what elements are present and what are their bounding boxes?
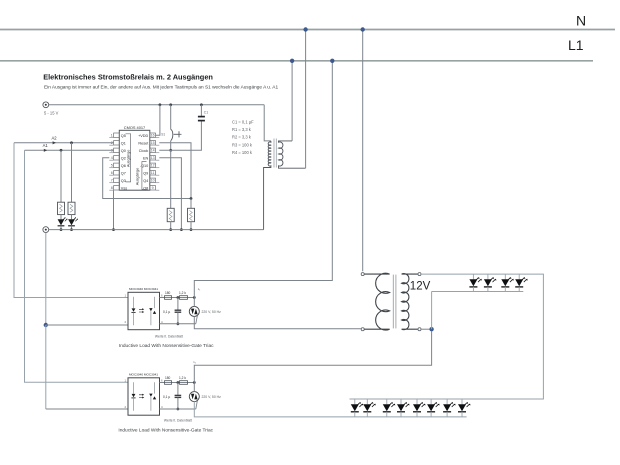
wire R2 to LED D2 bbox=[71, 215, 73, 220]
wire clock junction down to R3 bbox=[170, 150, 172, 208]
svg-text:0,1 µ: 0,1 µ bbox=[163, 310, 170, 314]
wire reset pin15 loop to Q2 pin4 bbox=[103, 143, 191, 199]
junction cap/gate wire bbox=[177, 408, 180, 411]
snubber capacitor bbox=[177, 383, 179, 396]
resistor R2 3.3k bbox=[68, 202, 75, 214]
svg-text:220 V, 50 Hz: 220 V, 50 Hz bbox=[202, 395, 222, 399]
opto LED bbox=[132, 308, 136, 311]
pin 10 (Q4) stub bbox=[150, 178, 156, 182]
svg-text:Inductive Load With Nonsensiti: Inductive Load With Nonsensitive-Gate Tr… bbox=[118, 427, 213, 433]
svg-text:Q9: Q9 bbox=[143, 171, 148, 175]
svg-text:5 - 15 V: 5 - 15 V bbox=[44, 111, 59, 116]
svg-text:14: 14 bbox=[151, 149, 155, 153]
svg-text:16: 16 bbox=[151, 133, 155, 137]
svg-text:N: N bbox=[576, 13, 586, 29]
LED D11 row1 bbox=[472, 274, 474, 279]
triac gate lead bbox=[196, 316, 198, 324]
svg-text:Vss: Vss bbox=[121, 186, 127, 190]
arrow A1 bbox=[44, 149, 47, 152]
junction 12V return bbox=[429, 327, 433, 331]
LED D1 bbox=[58, 219, 65, 225]
wire Tr2 secondary bottom to junction bbox=[421, 328, 432, 330]
svg-text:12V: 12V bbox=[410, 280, 431, 292]
pin 3 (Q0) stub bbox=[114, 148, 120, 152]
terminal +5-15V supply bbox=[43, 102, 49, 108]
svg-text:1,2 k: 1,2 k bbox=[179, 291, 186, 295]
LED D27 row2 bbox=[446, 399, 448, 404]
wire LED row1 top rail bbox=[350, 274, 544, 399]
svg-text:λ₁: λ₁ bbox=[198, 287, 201, 291]
switch S1 fixed contact bbox=[174, 133, 179, 135]
svg-text:Q7: Q7 bbox=[121, 171, 126, 175]
wire to OK2 cathode bbox=[46, 408, 128, 410]
svg-text:Ausgänge: Ausgänge bbox=[125, 150, 130, 168]
svg-text:15: 15 bbox=[151, 141, 155, 145]
wire Tr1 primary top to L1 bbox=[291, 61, 293, 141]
svg-text:A2: A2 bbox=[52, 136, 58, 141]
svg-text:R3 = 100 k: R3 = 100 k bbox=[232, 142, 253, 147]
wire Vss pin8 to 0V rail bbox=[113, 190, 115, 229]
wire N to Tr2 primary top bbox=[362, 30, 364, 272]
resistor R3 100k bbox=[167, 208, 174, 221]
pin 7 (Q3) stub bbox=[114, 178, 120, 182]
wire EN pin13 to 0V bbox=[159, 158, 181, 230]
wire A2 to opto OK1 anode bbox=[14, 143, 128, 298]
switch S1 lever bbox=[171, 129, 173, 140]
wire S1 to clock junction bbox=[170, 141, 172, 151]
opto triac detector bbox=[149, 394, 152, 397]
triac body bbox=[189, 392, 199, 402]
svg-text:180: 180 bbox=[165, 291, 171, 295]
wire A1 to opto OK2 anode bbox=[25, 150, 129, 382]
triac T2 MT2 to 12V return bbox=[194, 331, 431, 382]
junction A1/R1 branch bbox=[60, 149, 63, 152]
wire output A1 from pin3 bbox=[25, 149, 114, 151]
pin 14 (Clock) stub bbox=[150, 148, 156, 152]
transformer Tr1 secondary coil bbox=[264, 141, 271, 230]
svg-text:7: 7 bbox=[111, 179, 113, 183]
triac T1 MT1 to Tr2 primary bbox=[194, 316, 361, 328]
svg-text:13: 13 bbox=[151, 156, 155, 160]
svg-text:Werte lt. Datenblatt: Werte lt. Datenblatt bbox=[155, 334, 183, 338]
snubber capacitor bbox=[177, 298, 179, 310]
wire opto pin6 to gate network bbox=[160, 297, 195, 299]
pin 8 (Vss) stub bbox=[114, 186, 120, 190]
svg-text:220 V, 50 Hz: 220 V, 50 Hz bbox=[202, 310, 222, 314]
junction gate/cap bbox=[177, 296, 180, 299]
pin 9 (Q8) stub bbox=[150, 186, 156, 190]
terminal Tr2 secondary bottom bbox=[418, 328, 421, 331]
pin 16 (+VDD) stub bbox=[150, 133, 156, 137]
triac T2 MT1 to LED row2 rail bbox=[194, 401, 466, 416]
svg-text:180: 180 bbox=[165, 376, 171, 380]
LED D13 row1 bbox=[504, 274, 506, 279]
resistor R4 100k bbox=[188, 208, 195, 221]
opto light arrows bbox=[139, 395, 142, 398]
svg-text:Reset: Reset bbox=[138, 141, 149, 145]
pin 4 (Q2) stub bbox=[114, 156, 120, 160]
svg-text:0,1 µ: 0,1 µ bbox=[163, 395, 170, 399]
bracket outputs right bbox=[142, 162, 147, 190]
resistor 180 ohm bbox=[165, 296, 172, 300]
wire opto pin4 to triac gate bbox=[160, 323, 196, 325]
svg-text:11: 11 bbox=[151, 171, 155, 175]
resistor 180 ohm bbox=[165, 381, 172, 385]
LED D2 bbox=[68, 219, 75, 225]
pin 12 (-Q10) stub bbox=[150, 163, 156, 167]
svg-text:R2 = 3,3 k: R2 = 3,3 k bbox=[232, 135, 252, 140]
svg-text:S1: S1 bbox=[161, 133, 165, 137]
svg-text:+VDD: +VDD bbox=[138, 134, 148, 138]
wire 0V down to opto cathodes bbox=[45, 233, 47, 326]
capacitor C1 0.1uF bbox=[200, 105, 202, 117]
wire R3 to 0V rail bbox=[170, 222, 172, 230]
opto triac detector bbox=[149, 308, 152, 311]
op IC U1 CMOS 4017 body bbox=[119, 130, 150, 190]
LED D24 row2 bbox=[400, 399, 402, 404]
resistor 1.2k bbox=[180, 296, 188, 300]
transformer Tr2 secondary coil bbox=[402, 274, 418, 330]
LED D25 row2 bbox=[416, 399, 418, 404]
svg-text:MOC3040 MOC3041: MOC3040 MOC3041 bbox=[129, 287, 158, 291]
LED D14 row1 bbox=[518, 274, 520, 279]
wire A2 branch down to R2 bbox=[71, 143, 73, 202]
svg-text:A1: A1 bbox=[43, 143, 49, 148]
junction N/Tr2 bbox=[361, 27, 365, 31]
svg-text:9: 9 bbox=[152, 186, 154, 190]
wire row1 return riser bbox=[431, 292, 433, 330]
svg-text:10: 10 bbox=[151, 179, 155, 183]
transformer Tr2 primary coil bbox=[364, 273, 389, 330]
junction gate/cap bbox=[177, 381, 180, 384]
junction L1/Tr1 bbox=[290, 59, 294, 63]
svg-text:Q3: Q3 bbox=[121, 179, 126, 183]
svg-text:CMOS 4017: CMOS 4017 bbox=[124, 125, 145, 130]
pin 6 (Q7) stub bbox=[114, 171, 120, 175]
transformer Tr2 core bbox=[392, 275, 394, 329]
svg-text:5: 5 bbox=[111, 164, 113, 168]
svg-text:12: 12 bbox=[151, 164, 155, 168]
svg-text:4: 4 bbox=[111, 156, 113, 160]
junction S1/clock bbox=[169, 149, 172, 152]
wire clock pin14 to C1 bbox=[159, 121, 201, 150]
wire opto pin4 to triac gate bbox=[160, 408, 196, 410]
svg-text:Werte lt. Datenblatt: Werte lt. Datenblatt bbox=[164, 419, 192, 423]
wire R4 to 0V rail bbox=[190, 222, 192, 230]
junction gate/triac MT2 bbox=[193, 381, 196, 384]
LED D21 row2 bbox=[354, 399, 356, 404]
wire LED D2 to 0V bbox=[71, 226, 73, 230]
junction +V/C1 bbox=[200, 103, 203, 106]
svg-text:Q8: Q8 bbox=[143, 186, 148, 190]
wire 0V rail bbox=[49, 229, 264, 231]
svg-text:Inductive Load With Nonsensiti: Inductive Load With Nonsensitive-Gate Tr… bbox=[119, 343, 214, 349]
pin 13 (EN) stub bbox=[150, 156, 156, 160]
junction L1/T1 bbox=[330, 59, 334, 63]
net L1 (mains phase line) bbox=[0, 60, 593, 62]
pin 1 (Q5) stub bbox=[114, 133, 120, 137]
arrow A2 bbox=[53, 141, 56, 144]
terminal Tr2 secondary top bbox=[418, 273, 421, 276]
wire LED D1 to 0V bbox=[60, 226, 62, 230]
LED D22 row2 bbox=[366, 399, 368, 404]
svg-text:Ein Ausgang ist immer auf Ein,: Ein Ausgang ist immer auf Ein, der ander… bbox=[44, 85, 278, 91]
opto light arrows bbox=[139, 309, 142, 312]
junction A2/R2 branch bbox=[70, 141, 73, 144]
optocoupler box bbox=[128, 292, 160, 329]
bracket outputs left bbox=[126, 134, 131, 182]
wire output A2 from pin2 bbox=[14, 142, 114, 144]
svg-text:Ausgänge: Ausgänge bbox=[135, 168, 140, 186]
svg-text:C1 = 0,1 µF: C1 = 0,1 µF bbox=[232, 119, 254, 124]
wire R1 to LED D1 bbox=[60, 215, 62, 220]
svg-text:1: 1 bbox=[111, 133, 113, 137]
svg-text:Q4: Q4 bbox=[143, 179, 148, 183]
junction gate/triac MT2 bbox=[193, 296, 196, 299]
junction N/Tr1 bbox=[303, 27, 307, 31]
optocoupler box bbox=[128, 378, 160, 415]
svg-text:Elektronisches Stromstoßrelais: Elektronisches Stromstoßrelais m. 2 Ausg… bbox=[43, 73, 213, 82]
svg-text:L1: L1 bbox=[568, 37, 584, 53]
triac gate lead bbox=[196, 401, 198, 409]
terminal 0V bbox=[43, 227, 49, 233]
svg-text:Q5: Q5 bbox=[121, 134, 126, 138]
svg-text:8: 8 bbox=[111, 186, 113, 190]
wire A1 branch down to R1 bbox=[60, 150, 62, 202]
pin 15 (Reset) stub bbox=[150, 141, 156, 145]
LED D23 row2 bbox=[386, 399, 388, 404]
LED D12 row1 bbox=[487, 274, 489, 279]
pin 11 (Q9) stub bbox=[150, 171, 156, 175]
junction +V/S1 bbox=[169, 103, 172, 106]
svg-text:R4 = 100 k: R4 = 100 k bbox=[232, 150, 253, 155]
svg-text:MOC3040 MOC3041: MOC3040 MOC3041 bbox=[129, 373, 158, 377]
wire +V rail to Tr1 secondary top bbox=[264, 105, 271, 141]
net N (mains neutral line) bbox=[0, 29, 615, 31]
switch S1 feed from +V bbox=[170, 105, 172, 130]
pin 5 (Q6) stub bbox=[114, 163, 120, 167]
wire LED row1 bottom rail bbox=[432, 291, 524, 293]
junction 0V/OK1 cathode bbox=[44, 323, 48, 327]
svg-text:EN: EN bbox=[143, 156, 149, 160]
junction reset-loop/R4 bbox=[190, 197, 193, 200]
wire +V rail bbox=[49, 104, 265, 106]
resistor 1.2k bbox=[180, 381, 188, 385]
resistor R1 3.3k bbox=[58, 202, 65, 214]
LED D26 row2 bbox=[430, 399, 432, 404]
terminal Tr2 primary top bbox=[361, 273, 364, 276]
transformer Tr1 primary coil bbox=[279, 141, 306, 168]
triac body bbox=[189, 306, 199, 316]
svg-text:R1 = 3,3 k: R1 = 3,3 k bbox=[232, 127, 252, 132]
transformer Tr1 core bbox=[273, 139, 275, 168]
svg-text:Clock: Clock bbox=[139, 149, 149, 153]
wire pin16 to +V rail bbox=[156, 105, 160, 135]
wire junction down to R4 bbox=[190, 199, 192, 209]
junction cap/gate wire bbox=[177, 322, 180, 325]
svg-text:Q1: Q1 bbox=[121, 141, 126, 145]
wire junction down to OK2 cathode bbox=[45, 325, 47, 409]
opto LED bbox=[132, 394, 136, 397]
junction +V/pin16 bbox=[159, 103, 162, 106]
svg-text:1,2 k: 1,2 k bbox=[179, 376, 186, 380]
terminal Tr2 primary bottom bbox=[361, 328, 364, 331]
svg-text:-Q10: -Q10 bbox=[140, 164, 148, 168]
svg-text:6: 6 bbox=[111, 171, 113, 175]
svg-text:C1: C1 bbox=[204, 111, 208, 115]
pin 2 (Q1) stub bbox=[114, 141, 120, 145]
wire junction to OK1 cathode bbox=[46, 324, 128, 326]
LED D28 row2 bbox=[461, 399, 463, 404]
triac T1 MT2 to L1 bbox=[194, 61, 332, 298]
wire opto pin6 to gate network bbox=[160, 382, 195, 384]
wire Tr1 primary bottom to N bbox=[305, 30, 307, 169]
